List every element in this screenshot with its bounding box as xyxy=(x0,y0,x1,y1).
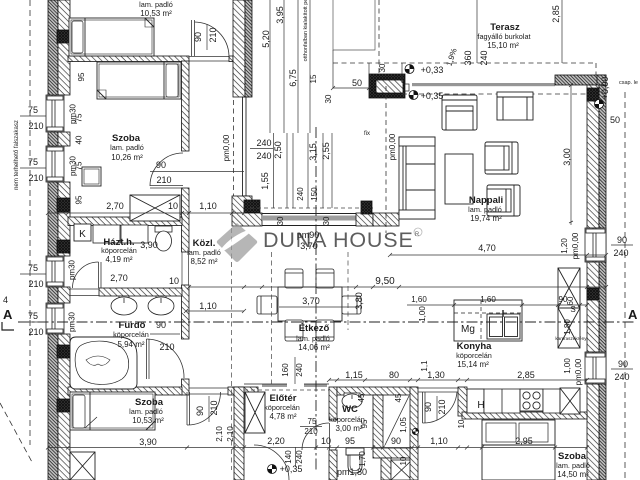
svg-text:60: 60 xyxy=(566,296,575,305)
svg-text:210: 210 xyxy=(28,279,43,289)
room label terasz xyxy=(477,22,530,50)
svg-text:+0,00: +0,00 xyxy=(600,77,610,100)
svg-text:4,70: 4,70 xyxy=(478,243,496,253)
benchmark +0,35 entrance xyxy=(268,465,277,474)
door arc furdo xyxy=(147,339,185,379)
shaft diagonal xyxy=(385,396,409,445)
left wall pier between upper windows xyxy=(58,132,70,146)
svg-text:2,95: 2,95 xyxy=(515,436,533,446)
svg-text:K: K xyxy=(79,229,86,240)
svg-text:95: 95 xyxy=(77,72,86,81)
svg-text:10,53 m²: 10,53 m² xyxy=(140,9,172,18)
door arc wc xyxy=(302,423,330,450)
svg-text:90: 90 xyxy=(156,320,166,330)
svg-text:240: 240 xyxy=(614,372,629,382)
room label szoba bottom-left xyxy=(129,397,164,425)
svg-text:3,80: 3,80 xyxy=(354,292,364,310)
svg-text:75: 75 xyxy=(28,157,38,167)
svg-text:pm0,00: pm0,00 xyxy=(388,133,397,160)
svg-text:90: 90 xyxy=(391,436,401,446)
dim line bottom chain xyxy=(46,446,589,450)
svg-text:2,70: 2,70 xyxy=(106,201,124,211)
nightstand inner xyxy=(84,169,99,184)
dashed line along glass xyxy=(233,100,235,196)
south wall segment right xyxy=(373,213,399,226)
svg-text:210: 210 xyxy=(28,121,43,131)
kitchen tall cabinet X xyxy=(560,388,580,414)
svg-text:14,50 m²: 14,50 m² xyxy=(557,470,589,479)
left wall window 75/210 no2 xyxy=(46,146,64,182)
svg-text:köporcelán: köporcelán xyxy=(456,351,492,360)
corner bathtub xyxy=(70,337,137,389)
svg-text:R: R xyxy=(415,232,420,238)
eave dashed line right xyxy=(624,92,626,480)
watermark shield xyxy=(217,223,258,262)
nappali west dashed line xyxy=(385,86,387,233)
right wall inner seg3 xyxy=(587,384,599,480)
small cabinet X below wc corner xyxy=(391,460,412,480)
benchmark +0,35 terrace xyxy=(409,91,418,100)
svg-text:köporcelán: köporcelán xyxy=(101,246,137,255)
svg-text:WC: WC xyxy=(342,404,358,415)
svg-text:2,85: 2,85 xyxy=(551,5,561,23)
kitchen back wall xyxy=(462,412,587,419)
wc left wall lower xyxy=(329,450,337,480)
room label wc xyxy=(329,404,365,433)
terrace dashed boundary left vertical xyxy=(378,0,380,74)
dim line szoba bottom xyxy=(46,211,246,215)
left wall dark block 2 xyxy=(57,198,70,212)
svg-text:fix: fix xyxy=(364,131,370,137)
left margin fraction lines xyxy=(20,116,46,322)
svg-text:45: 45 xyxy=(394,393,403,402)
right wall dark block top xyxy=(587,88,599,101)
svg-text:1,10: 1,10 xyxy=(430,436,448,446)
room label kozl xyxy=(187,238,221,266)
terrace dashed right vertical xyxy=(595,63,597,76)
svg-text:15: 15 xyxy=(309,74,318,83)
door arc szoba bottom-left xyxy=(187,392,221,425)
svg-text:19,74 m²: 19,74 m² xyxy=(470,214,502,223)
svg-text:95: 95 xyxy=(75,195,84,204)
szoba-bl door fraction vertical xyxy=(208,396,210,422)
svg-text:1,60: 1,60 xyxy=(480,295,496,304)
furdo door fraction line xyxy=(150,333,180,335)
top wall stub right of door xyxy=(229,56,233,62)
svg-text:210: 210 xyxy=(437,399,447,414)
central top wall outer layer xyxy=(245,0,252,97)
svg-text:210: 210 xyxy=(28,327,43,337)
corridor door header threshold xyxy=(418,388,458,392)
svg-text:75: 75 xyxy=(75,161,84,170)
furdo washbasin 2 xyxy=(148,296,174,315)
svg-text:Mg: Mg xyxy=(461,324,475,335)
glass wall pm0,00 vertical xyxy=(242,97,250,196)
dim 2,85 vertical xyxy=(561,0,563,63)
svg-text:köporcelán: köporcelán xyxy=(264,403,300,412)
svg-text:1,30: 1,30 xyxy=(427,370,445,380)
nappali armchair right2 xyxy=(487,185,520,216)
svg-text:95: 95 xyxy=(360,419,369,428)
etkezo chair bottom1 xyxy=(285,320,303,341)
left wall dark block 3 xyxy=(57,345,70,358)
svg-text:40: 40 xyxy=(75,135,84,144)
room label top room xyxy=(139,0,173,18)
svg-text:10,26 m²: 10,26 m² xyxy=(111,153,143,162)
svg-text:pm30: pm30 xyxy=(68,311,77,332)
bed top-left room xyxy=(69,18,154,56)
svg-text:95: 95 xyxy=(345,436,355,446)
svg-text:15,14 m²: 15,14 m² xyxy=(457,360,489,369)
svg-text:10: 10 xyxy=(399,456,408,465)
dim line wc row xyxy=(327,378,589,382)
wc door fraction xyxy=(300,426,322,428)
kitchen fridge H xyxy=(467,389,485,413)
etkezo chair left xyxy=(257,296,277,314)
svg-text:3,00 m²: 3,00 m² xyxy=(335,424,362,433)
svg-text:pm1,80: pm1,80 xyxy=(337,467,367,477)
svg-text:90: 90 xyxy=(423,402,433,412)
nightstand szoba xyxy=(82,167,101,186)
furdo top wall xyxy=(99,288,182,296)
right exterior wall outer layer xyxy=(599,85,606,480)
left wall inner segment bottom xyxy=(58,334,70,480)
svg-text:4,78 m²: 4,78 m² xyxy=(269,412,296,421)
washer boxes haztartasi xyxy=(93,225,148,243)
property dashed diagonal bottom-left xyxy=(0,403,32,462)
island sink xyxy=(487,310,520,339)
interior wall x182 segment below szoba door xyxy=(182,188,190,252)
bottom horizontal wall (furdo/szoba) xyxy=(68,387,182,395)
svg-text:fagyálló burkolat: fagyálló burkolat xyxy=(477,32,530,41)
svg-text:lam. padló: lam. padló xyxy=(296,334,330,343)
svg-text:4,19 m²: 4,19 m² xyxy=(105,255,132,264)
svg-text:210: 210 xyxy=(209,400,219,415)
svg-text:3,95: 3,95 xyxy=(275,6,285,24)
svg-text:10: 10 xyxy=(457,419,466,428)
svg-text:50: 50 xyxy=(610,115,620,125)
roof overhang thin lines xyxy=(333,0,375,50)
svg-text:2,50: 2,50 xyxy=(273,141,283,159)
pier dark block xyxy=(361,201,372,214)
kamra cabinet X2 xyxy=(558,268,580,348)
wc bottom-right corner wall xyxy=(373,448,412,458)
terrace edge gray line xyxy=(412,83,555,86)
svg-text:5,94 m²: 5,94 m² xyxy=(117,340,144,349)
top-right corner wall horizontal xyxy=(555,75,606,85)
etkezo chair top2 xyxy=(316,269,334,288)
svg-text:otthonfalban kialakított pe: otthonfalban kialakított pe xyxy=(303,0,309,61)
svg-text:kamraszekrény: kamraszekrény xyxy=(555,336,587,341)
dim line kitchen xyxy=(407,303,589,307)
svg-text:pm0,00: pm0,00 xyxy=(222,134,231,161)
svg-text:75: 75 xyxy=(28,311,38,321)
dashed axis etkezo right xyxy=(347,252,349,330)
svg-text:lam. padló: lam. padló xyxy=(139,0,173,9)
dashed lintel line above window band xyxy=(250,207,375,209)
dim fraction 240/240 xyxy=(250,148,273,150)
terrace pillar connector xyxy=(405,84,409,91)
svg-text:H: H xyxy=(477,400,484,411)
svg-text:240: 240 xyxy=(256,138,271,148)
kitchen cabinet right xyxy=(543,389,560,413)
right wall window 90/240 lower xyxy=(585,352,606,384)
door arc top room xyxy=(192,20,230,56)
dim line szoba door fraction xyxy=(150,171,244,173)
top room bottom wall xyxy=(68,56,189,62)
svg-text:3,70: 3,70 xyxy=(302,296,320,306)
property dashed line left xyxy=(29,0,31,445)
left wall inner segment middle xyxy=(58,182,70,256)
etkezo dining table xyxy=(278,287,342,321)
svg-text:5,20: 5,20 xyxy=(261,30,271,48)
svg-text:2,20: 2,20 xyxy=(267,436,285,446)
room label nappali xyxy=(468,195,503,223)
right exterior wall inner layer seg1 xyxy=(587,85,599,228)
svg-text:1,00: 1,00 xyxy=(563,358,572,374)
svg-text:90: 90 xyxy=(618,359,628,369)
dim line kozl 1,10 xyxy=(184,309,246,313)
svg-text:210: 210 xyxy=(159,342,174,352)
svg-text:8,52 m²: 8,52 m² xyxy=(190,257,217,266)
left exterior wall inner layer segment top xyxy=(58,0,70,95)
svg-text:10: 10 xyxy=(168,201,178,211)
right wall dark block middle xyxy=(587,288,599,300)
corridor door fraction vertical xyxy=(436,396,438,420)
haztartasi wc pan xyxy=(155,226,172,251)
svg-text:45: 45 xyxy=(357,393,366,402)
section line A-A horizontal dash-dot xyxy=(18,321,636,323)
svg-text:pm30: pm30 xyxy=(68,259,77,280)
svg-text:160: 160 xyxy=(281,363,290,377)
benchmark +0,33 xyxy=(405,65,414,74)
svg-text:90: 90 xyxy=(193,32,203,42)
svg-text:pm0,00: pm0,00 xyxy=(574,358,583,385)
svg-text:10: 10 xyxy=(169,276,179,286)
wardrobe bottom-left with X xyxy=(70,452,95,480)
left wall dark block 5 xyxy=(57,399,70,412)
svg-text:1,00: 1,00 xyxy=(418,306,427,322)
svg-text:1,55: 1,55 xyxy=(260,172,270,190)
right wall inner seg2 xyxy=(587,262,599,352)
svg-text:2,10: 2,10 xyxy=(226,426,235,442)
svg-text:1,10: 1,10 xyxy=(199,301,217,311)
wc small basin xyxy=(342,393,362,408)
nappali coffee table xyxy=(445,154,473,204)
etkezo chair top1 xyxy=(285,269,303,288)
etkezo chair bottom2 xyxy=(316,320,334,341)
left wall dark block 1 xyxy=(57,30,70,43)
room label eloter xyxy=(264,393,300,421)
elotér north glass band left xyxy=(244,384,287,387)
nappali sofa xyxy=(399,137,435,219)
svg-text:pm0,00: pm0,00 xyxy=(571,232,580,259)
nappali armchair right1 xyxy=(485,142,518,174)
svg-text:150: 150 xyxy=(310,187,319,201)
svg-text:lam. padló: lam. padló xyxy=(468,205,502,214)
dashed axis below corner wall xyxy=(231,228,233,470)
central top wall inner layer xyxy=(233,0,245,97)
svg-text:210: 210 xyxy=(304,427,318,436)
room label hazt.h xyxy=(101,237,137,264)
svg-text:50: 50 xyxy=(352,78,362,88)
svg-text:csap. le: csap. le xyxy=(619,80,638,86)
svg-text:30: 30 xyxy=(322,216,331,225)
interior wall x182 below furdo door xyxy=(182,379,190,395)
room label furdo xyxy=(113,320,149,349)
dashed axis etkezo left xyxy=(271,252,273,384)
right window fraction upper xyxy=(611,244,633,246)
corridor south wall segment xyxy=(232,213,262,226)
room label etkezo xyxy=(296,323,330,352)
160/240 fraction vertical xyxy=(294,357,296,384)
corner dark pier xyxy=(244,200,260,213)
svg-text:240: 240 xyxy=(295,450,304,464)
bed szoba bottom-right xyxy=(482,420,555,480)
benchmark small corridor xyxy=(412,428,418,434)
svg-text:3,15: 3,15 xyxy=(308,143,318,161)
wc top wall xyxy=(337,387,416,395)
svg-text:15,10 m²: 15,10 m² xyxy=(487,41,519,50)
watermark registered mark xyxy=(414,228,422,238)
terrace pillar leader lines xyxy=(333,50,402,97)
svg-text:90: 90 xyxy=(195,406,205,416)
svg-text:240: 240 xyxy=(256,151,271,161)
terrace pillar inner xyxy=(376,80,403,93)
svg-text:2,70: 2,70 xyxy=(110,273,128,283)
dim 360/240 vertical xyxy=(476,0,478,63)
svg-text:75: 75 xyxy=(75,113,84,122)
pier right of corridor door xyxy=(458,387,467,416)
mid dim extension verticals xyxy=(274,133,333,208)
svg-text:240: 240 xyxy=(613,248,628,258)
svg-text:2,55: 2,55 xyxy=(321,142,331,160)
corner wall stub below glass xyxy=(232,196,252,213)
svg-text:140: 140 xyxy=(284,450,293,464)
dim line 3,70 table xyxy=(279,306,359,308)
svg-text:+0,35: +0,35 xyxy=(421,91,444,101)
svg-text:DUNA HOUSE: DUNA HOUSE xyxy=(263,228,413,252)
svg-text:30: 30 xyxy=(378,63,387,72)
svg-text:Étkező: Étkező xyxy=(299,323,330,334)
kitchen stove xyxy=(520,389,543,411)
svg-text:3,00: 3,00 xyxy=(562,148,572,166)
room label szoba 10,26 xyxy=(110,133,144,162)
nappali armchair top xyxy=(442,95,477,130)
svg-text:240: 240 xyxy=(479,50,489,65)
bottom szoba door threshold xyxy=(189,388,228,394)
svg-text:lam. padló: lam. padló xyxy=(129,407,163,416)
elotér north dashed line xyxy=(244,389,329,391)
dim 3,00 nappali vertical xyxy=(569,83,573,225)
bed szoba 10,26 xyxy=(97,62,181,99)
room label konyha xyxy=(456,341,492,369)
svg-text:75: 75 xyxy=(28,263,38,273)
wc right wall xyxy=(373,395,383,450)
section line vertical dash-dot xyxy=(315,127,317,472)
room label szoba bottom-right xyxy=(556,451,590,479)
furdo door threshold xyxy=(70,289,99,296)
hazt.h door threshold in x182 wall xyxy=(182,252,189,285)
door arc entrance xyxy=(254,445,289,480)
wc toilet xyxy=(346,448,364,473)
bed szoba bottom-left xyxy=(70,392,155,430)
svg-text:1,60: 1,60 xyxy=(411,295,427,304)
etkezo chair right xyxy=(342,296,361,314)
dim line 4,70 xyxy=(388,253,608,257)
svg-text:+0,35: +0,35 xyxy=(280,464,303,474)
right window fraction lower xyxy=(611,368,633,370)
svg-text:3,90: 3,90 xyxy=(139,437,157,447)
szoba bottom wall xyxy=(68,217,182,226)
svg-text:10,53 m²: 10,53 m² xyxy=(132,416,164,425)
svg-text:30: 30 xyxy=(276,216,285,225)
benchmark +0,00 right xyxy=(595,100,604,109)
svg-text:90: 90 xyxy=(617,235,627,245)
svg-text:10: 10 xyxy=(321,436,331,446)
svg-text:9,50: 9,50 xyxy=(375,276,395,287)
elotér north glass band right xyxy=(304,384,329,387)
svg-text:75: 75 xyxy=(28,105,38,115)
interior wall x182 upper segment xyxy=(182,61,190,151)
svg-text:lam. padló: lam. padló xyxy=(110,143,144,152)
terrace dashed boundary inner xyxy=(402,93,587,95)
elotér/szoba-bl dividing wall xyxy=(234,387,244,480)
svg-text:240: 240 xyxy=(295,363,304,377)
left wall window 75/210 no4 xyxy=(46,303,64,334)
terrace chair xyxy=(497,92,533,120)
svg-text:4: 4 xyxy=(3,295,8,305)
svg-text:75: 75 xyxy=(308,417,317,426)
left wall window 75/210 no1 xyxy=(46,95,64,132)
wall stub below wc corner xyxy=(381,458,391,480)
svg-text:A: A xyxy=(3,307,13,322)
kitchen counter cabinets xyxy=(484,389,520,413)
corridor west wall x410 xyxy=(410,387,418,480)
wc left wall upper xyxy=(329,387,337,420)
left exterior wall outer layer xyxy=(48,0,58,480)
svg-text:+0,33: +0,33 xyxy=(421,65,444,75)
svg-text:1,10: 1,10 xyxy=(199,201,217,211)
svg-text:2,10: 2,10 xyxy=(215,426,224,442)
left wall window 75/210 no3 xyxy=(46,256,64,287)
dim line 50 pillar xyxy=(331,86,371,90)
svg-text:1,80: 1,80 xyxy=(563,319,572,335)
south wall pier with dark block xyxy=(356,213,373,226)
furdo washbasin 1 xyxy=(111,296,137,315)
svg-text:360: 360 xyxy=(463,50,473,65)
svg-text:1,05: 1,05 xyxy=(399,417,408,433)
svg-text:1,70: 1,70 xyxy=(358,451,367,467)
top room door threshold xyxy=(189,57,229,62)
svg-text:210: 210 xyxy=(156,175,171,185)
svg-text:240: 240 xyxy=(296,187,305,201)
dim line 9,50 xyxy=(187,285,608,289)
140/240 fraction vertical xyxy=(295,447,297,467)
wardrobe szoba with X xyxy=(130,195,180,221)
svg-text:3,90: 3,90 xyxy=(140,240,158,250)
svg-text:1,1: 1,1 xyxy=(420,360,429,372)
svg-text:30: 30 xyxy=(324,94,333,103)
top-right corner outer cap xyxy=(597,75,606,85)
svg-text:80: 80 xyxy=(389,370,399,380)
svg-text:210: 210 xyxy=(208,27,218,42)
door arc haztartasi xyxy=(73,262,102,288)
door arc corridor-szoba br xyxy=(423,392,458,423)
bottom wall stub elotere xyxy=(228,387,258,395)
svg-text:14,06 m²: 14,06 m² xyxy=(298,343,330,352)
south window band pm90 xyxy=(262,214,356,226)
